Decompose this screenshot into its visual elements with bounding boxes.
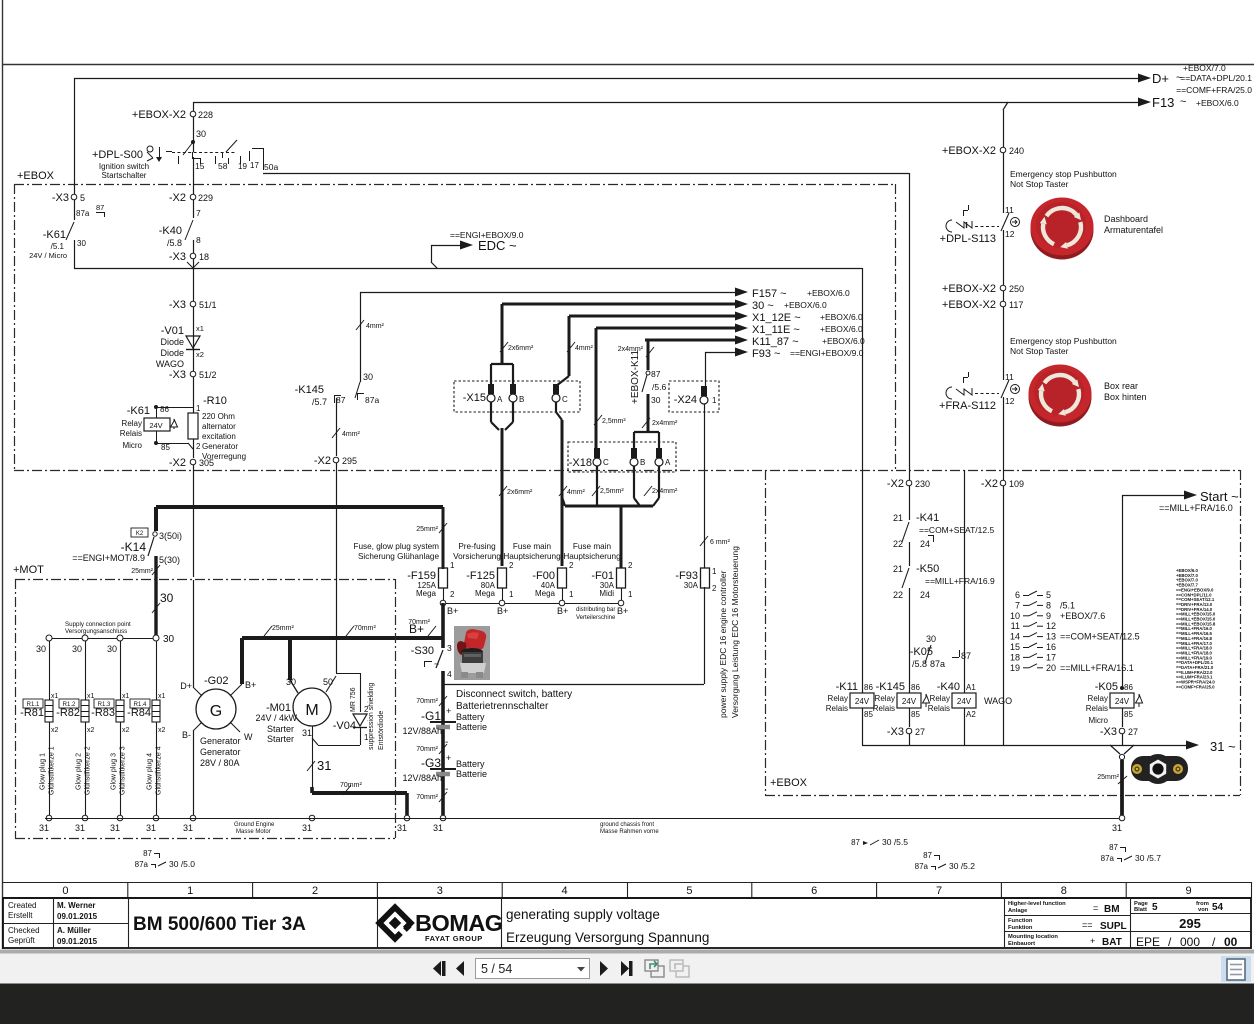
wire B+ main [441, 603, 445, 648]
svg-text:295: 295 [342, 456, 357, 466]
wire F159 feed [442, 507, 445, 569]
svg-text:30: 30 [286, 677, 296, 687]
connector box -X15 [454, 381, 580, 412]
svg-text:Masse Rahmen vorne: Masse Rahmen vorne [600, 829, 659, 835]
svg-text:+: + [1090, 936, 1095, 946]
svg-text:=: = [1093, 903, 1098, 913]
svg-text:0: 0 [62, 885, 68, 897]
svg-text:~: ~ [1180, 96, 1186, 108]
svg-text:Hauptsicherung: Hauptsicherung [563, 552, 621, 561]
svg-text:Ground Engine: Ground Engine [234, 822, 275, 828]
svg-text:18: 18 [199, 252, 209, 262]
svg-text:C: C [562, 395, 568, 404]
svg-text:87a: 87a [1101, 854, 1115, 863]
wire K11 to bus [862, 708, 864, 745]
svg-text:EPE: EPE [1136, 935, 1160, 949]
svg-text:4: 4 [562, 885, 568, 897]
contact K14 [154, 507, 158, 531]
svg-text:1: 1 [509, 590, 514, 599]
svg-text:09.01.2015: 09.01.2015 [57, 937, 98, 946]
svg-text:Start ~: Start ~ [1200, 489, 1239, 504]
svg-text:30: 30 [107, 644, 117, 654]
fuse -F93 [701, 568, 710, 588]
svg-text:Batterie: Batterie [456, 769, 487, 779]
svg-text:31: 31 [397, 823, 407, 833]
svg-text:230: 230 [915, 479, 930, 489]
svg-text:-R84: -R84 [127, 707, 151, 719]
wire F93 [705, 352, 741, 354]
wire X1_12E drop [568, 316, 571, 376]
svg-text:-K14: -K14 [121, 540, 147, 554]
svg-text:13: 13 [1046, 632, 1056, 642]
svg-text:16: 16 [1046, 642, 1056, 652]
svg-text:31: 31 [317, 758, 331, 773]
svg-text:11: 11 [1005, 205, 1014, 215]
svg-text:Glühstiftkerze 1: Glühstiftkerze 1 [49, 746, 56, 795]
svg-text:30 /5.0: 30 /5.0 [169, 859, 195, 869]
svg-text:Fuse main: Fuse main [573, 542, 612, 551]
svg-text:+: + [446, 706, 451, 716]
svg-text:1: 1 [187, 885, 193, 897]
svg-text:==COM+SEAT/12.5: ==COM+SEAT/12.5 [919, 525, 994, 535]
svg-text:24V: 24V [957, 697, 972, 706]
svg-text:+EBOX/6.0: +EBOX/6.0 [1196, 98, 1239, 108]
svg-text:87: 87 [143, 849, 152, 858]
svg-text:25mm²: 25mm² [1097, 774, 1119, 781]
svg-text:31: 31 [39, 823, 49, 833]
svg-text:Relay: Relay [875, 694, 895, 703]
svg-text:==MILL+FRA/16.1: ==MILL+FRA/16.1 [1060, 663, 1134, 673]
svg-text:-K50: -K50 [916, 563, 939, 575]
wire 15 down to X2:229 [193, 157, 195, 194]
svg-text:220 Ohm: 220 Ohm [202, 412, 235, 421]
svg-text:3: 3 [437, 885, 443, 897]
svg-text:-X2: -X2 [169, 192, 186, 204]
svg-text:-X18: -X18 [569, 457, 592, 469]
svg-text:-X3: -X3 [52, 192, 69, 204]
fuse -F125 [498, 568, 507, 588]
svg-text:50a: 50a [264, 162, 278, 172]
svg-text:Relais: Relais [1086, 704, 1108, 713]
svg-text:Relais: Relais [826, 704, 848, 713]
svg-text:31: 31 [146, 823, 156, 833]
svg-text:Micro: Micro [122, 441, 142, 450]
svg-text:4mm²: 4mm² [342, 431, 361, 438]
svg-text:+FRA-S112: +FRA-S112 [939, 400, 996, 412]
svg-text:==MILL+FRA/16.9: ==MILL+FRA/16.9 [925, 576, 995, 586]
svg-text:/5.6: /5.6 [652, 382, 666, 392]
svg-text:2: 2 [450, 590, 455, 599]
svg-text:-V01: -V01 [161, 325, 184, 337]
svg-text:M: M [305, 702, 318, 719]
svg-text:BM 500/600 Tier 3A: BM 500/600 Tier 3A [133, 914, 306, 935]
svg-text:7: 7 [1015, 600, 1020, 610]
wire 30 drop through X15 [501, 304, 504, 364]
svg-text:15: 15 [195, 161, 205, 171]
svg-text:Relay: Relay [1088, 694, 1108, 703]
svg-text:Not Stop Taster: Not Stop Taster [1010, 179, 1069, 189]
svg-text:30: 30 [77, 239, 86, 248]
viewer toolbar [0, 954, 1254, 984]
svg-text:D+: D+ [1152, 71, 1169, 86]
svg-text:B-: B- [182, 730, 191, 740]
svg-text:von: von [1198, 907, 1209, 913]
svg-text:x1: x1 [158, 693, 166, 700]
svg-text:19: 19 [238, 162, 247, 171]
svg-text:x2: x2 [87, 727, 95, 734]
svg-text:4mm²: 4mm² [567, 489, 586, 496]
svg-text:87a: 87a [930, 659, 945, 669]
svg-text:87: 87 [336, 395, 346, 405]
svg-text:-K05: -K05 [1095, 681, 1118, 693]
svg-text:21: 21 [893, 564, 903, 574]
svg-text:Relais: Relais [120, 429, 142, 438]
svg-text:C: C [603, 458, 609, 467]
svg-text:85: 85 [911, 710, 920, 719]
svg-text:BAT: BAT [1102, 937, 1122, 948]
bottom bus 31 [862, 745, 1192, 747]
svg-text:Starter: Starter [267, 724, 294, 734]
svg-text:2: 2 [628, 561, 633, 570]
svg-text:87a: 87a [365, 395, 379, 405]
svg-text:87: 87 [651, 369, 661, 379]
svg-text:-K40: -K40 [937, 681, 960, 693]
svg-text:FAYAT GROUP: FAYAT GROUP [425, 934, 483, 943]
svg-text:87: 87 [851, 838, 860, 847]
svg-text:Hauptsicherung: Hauptsicherung [503, 552, 561, 561]
svg-text:5: 5 [686, 885, 692, 897]
svg-text:+EBOX-X2: +EBOX-X2 [132, 109, 186, 121]
svg-text:Ignition switch: Ignition switch [99, 162, 149, 171]
svg-text:31: 31 [302, 823, 312, 833]
svg-text:30A: 30A [684, 581, 699, 590]
svg-text:Mounting location: Mounting location [1008, 934, 1058, 940]
svg-text:x2: x2 [158, 727, 166, 734]
svg-text:Checked: Checked [8, 926, 40, 935]
svg-text:D+: D+ [180, 681, 192, 691]
svg-text:Battery: Battery [456, 712, 485, 722]
wire X1_12E [569, 315, 741, 318]
svg-text:Generator: Generator [200, 747, 241, 757]
svg-text:B+: B+ [557, 606, 568, 616]
svg-text:Armaturentafel: Armaturentafel [1104, 225, 1163, 235]
svg-text:Blatt: Blatt [1134, 907, 1147, 913]
svg-text:54: 54 [1212, 902, 1224, 913]
svg-text:4mm²: 4mm² [366, 323, 385, 330]
svg-text:Relais: Relais [873, 704, 895, 713]
svg-text:A: A [665, 458, 671, 467]
svg-text:Higher-level function: Higher-level function [1008, 901, 1066, 907]
svg-text:27: 27 [1128, 727, 1138, 737]
emergency stop button 1 (dashboard) [1031, 198, 1094, 260]
svg-text:MR 756: MR 756 [350, 687, 357, 712]
generator G02 [193, 580, 195, 687]
wire F93 return to battery line [704, 587, 706, 684]
svg-text:1: 1 [450, 561, 455, 570]
svg-text:Glow plug 4: Glow plug 4 [147, 753, 154, 790]
svg-text:x2: x2 [122, 727, 130, 734]
glow plug R84 [156, 641, 158, 700]
svg-text:Geprüft: Geprüft [8, 936, 35, 945]
svg-text:31: 31 [183, 823, 193, 833]
svg-text:240: 240 [1009, 146, 1024, 156]
switch pole diagonals [183, 142, 193, 155]
svg-text:Dashboard: Dashboard [1104, 214, 1148, 224]
svg-text:-R83: -R83 [91, 707, 115, 719]
svg-text:-X3: -X3 [1100, 726, 1117, 738]
svg-text:30 ~: 30 ~ [752, 300, 774, 312]
wire X1_11E [596, 327, 741, 330]
svg-text:Disconnect switch, battery: Disconnect switch, battery [456, 689, 572, 700]
svg-text:Micro: Micro [1088, 716, 1108, 725]
B+ distribution rail [443, 603, 621, 605]
svg-text:2x6mm²: 2x6mm² [508, 345, 534, 352]
svg-text:12V/88Ah: 12V/88Ah [402, 726, 442, 736]
svg-text:+EBOX/6.0: +EBOX/6.0 [820, 312, 863, 322]
svg-text:87: 87 [96, 203, 104, 212]
svg-text:30: 30 [651, 395, 661, 405]
svg-text:Midi: Midi [599, 589, 614, 598]
svg-text:Starter: Starter [267, 734, 294, 744]
wire F93 drop [705, 352, 707, 386]
svg-text:Relay: Relay [930, 694, 950, 703]
svg-text:B+: B+ [497, 606, 508, 616]
svg-text:Mega: Mega [475, 589, 496, 598]
svg-text:-X15: -X15 [463, 392, 486, 404]
svg-text:+EBOX-X2: +EBOX-X2 [942, 145, 996, 157]
svg-text:70mm²: 70mm² [416, 698, 438, 705]
svg-text:-X3: -X3 [169, 369, 186, 381]
svg-text:+EBOX/7.0: +EBOX/7.0 [1183, 63, 1226, 73]
svg-text:2: 2 [569, 561, 574, 570]
svg-text:6: 6 [811, 885, 817, 897]
ground rail 31 [45, 818, 1122, 820]
svg-text:Diode: Diode [160, 337, 184, 347]
svg-text:87: 87 [1109, 843, 1118, 852]
svg-text:31: 31 [75, 823, 85, 833]
svg-text:-K61: -K61 [43, 229, 66, 241]
svg-text:/5.1: /5.1 [51, 242, 65, 251]
svg-text:24V: 24V [1115, 697, 1130, 706]
svg-text:70mm²: 70mm² [416, 746, 438, 753]
thick collector y=506 to F01 [565, 505, 653, 508]
svg-text:A: A [497, 395, 503, 404]
svg-text:distributing bar: distributing bar [576, 607, 615, 613]
svg-text:-K61: -K61 [127, 405, 150, 417]
contact K40 [193, 200, 195, 218]
viewer gray strip [0, 950, 1254, 954]
svg-text:22: 22 [893, 539, 903, 549]
svg-text:117: 117 [1009, 300, 1023, 310]
svg-text:11: 11 [1011, 621, 1020, 631]
svg-text:+EBOX/6.0: +EBOX/6.0 [822, 336, 865, 346]
svg-text:WAGO: WAGO [156, 359, 184, 369]
svg-text:==COM+SEAT/12.5: ==COM+SEAT/12.5 [1060, 632, 1140, 642]
svg-text:17: 17 [1046, 652, 1056, 662]
fuse -F01 [617, 568, 626, 588]
svg-text:-K40: -K40 [159, 225, 182, 237]
svg-text:-K145: -K145 [295, 384, 324, 396]
svg-text:-X2: -X2 [314, 455, 331, 467]
svg-text:1: 1 [712, 567, 717, 576]
svg-text:229: 229 [198, 193, 213, 203]
svg-text:Glühstiftkerze 4: Glühstiftkerze 4 [156, 746, 163, 795]
svg-text:12: 12 [1005, 229, 1015, 239]
svg-text:-X3: -X3 [169, 299, 186, 311]
svg-text:70mm²: 70mm² [416, 794, 438, 801]
svg-text:10: 10 [1010, 611, 1020, 621]
toolbar prev button [456, 961, 464, 976]
wire X1_11E drop through X18 [595, 328, 598, 450]
svg-text:2: 2 [712, 584, 717, 593]
wire drop to K61 x=74 [74, 78, 76, 194]
svg-text:87a: 87a [915, 862, 929, 871]
svg-text:suppression shielding: suppression shielding [368, 683, 375, 750]
coil diode K61 [171, 419, 178, 429]
svg-text:Box rear: Box rear [1104, 381, 1138, 391]
svg-text:X1_11E ~: X1_11E ~ [752, 324, 800, 336]
svg-text:24V / 4kW: 24V / 4kW [255, 713, 297, 723]
svg-text:2,5mm²: 2,5mm² [602, 418, 626, 425]
svg-text:31: 31 [302, 728, 312, 738]
wire drop from F13 to X2:228 [193, 102, 195, 111]
svg-text:24V: 24V [855, 697, 870, 706]
svg-text:24V: 24V [902, 697, 917, 706]
svg-text:5 / 54: 5 / 54 [481, 962, 512, 976]
svg-text:87: 87 [923, 851, 932, 860]
toolbar first-page button [433, 961, 441, 976]
toolbar icon pages-gray [670, 960, 689, 977]
svg-text:109: 109 [1009, 479, 1024, 489]
svg-text:Glow plug 1: Glow plug 1 [40, 753, 47, 790]
svg-text:70mm²: 70mm² [340, 782, 362, 789]
svg-text:58: 58 [218, 161, 228, 171]
BOMAG logo [377, 898, 379, 948]
wire G02 B+ to bus [240, 638, 244, 684]
svg-text:Vorsicherung: Vorsicherung [453, 552, 501, 561]
svg-text:==DATA+DPL/20.1: ==DATA+DPL/20.1 [1180, 73, 1252, 83]
svg-text:Masse Motor: Masse Motor [236, 829, 271, 835]
svg-text:-X3: -X3 [887, 726, 904, 738]
svg-text:30: 30 [36, 644, 46, 654]
toolbar last-page button [621, 961, 629, 976]
svg-text:Created: Created [8, 901, 36, 910]
svg-text:14: 14 [1010, 632, 1020, 642]
svg-text:+EBOX-K11: +EBOX-K11 [630, 350, 641, 404]
svg-text:5: 5 [1152, 902, 1158, 913]
svg-text:Pre-fusing: Pre-fusing [458, 542, 496, 551]
svg-text:12: 12 [1005, 396, 1015, 406]
created/checked cells [3, 923, 128, 925]
svg-text:11: 11 [1005, 372, 1014, 382]
svg-text:-V04: -V04 [333, 720, 356, 732]
svg-text:00: 00 [1224, 935, 1238, 949]
svg-text:/5.8: /5.8 [167, 238, 182, 248]
wire 50 up [326, 676, 336, 692]
svg-text:31: 31 [1112, 823, 1122, 833]
svg-text:alternator: alternator [202, 422, 236, 431]
svg-text:Mega: Mega [535, 589, 556, 598]
svg-text:-G1: -G1 [421, 709, 441, 723]
glow plug R81 [49, 641, 51, 700]
svg-text:+DPL-S00: +DPL-S00 [92, 149, 143, 161]
battery G3 [439, 744, 447, 754]
wire K145 to X3:27 [909, 708, 911, 727]
wire F157 drop x=360 [360, 292, 362, 382]
svg-text:7: 7 [936, 885, 942, 897]
svg-text:+EBOX/7.6: +EBOX/7.6 [1060, 611, 1105, 621]
svg-text:Supply connection point: Supply connection point [65, 621, 131, 628]
svg-text:+: + [446, 753, 451, 763]
svg-text:-R82: -R82 [56, 707, 80, 719]
svg-text:5(30): 5(30) [159, 555, 180, 565]
svg-text:==MILL+FRA/16.0: ==MILL+FRA/16.0 [1159, 503, 1233, 513]
wire K145 down to X2:295 [336, 398, 338, 456]
svg-text:295: 295 [1179, 916, 1201, 931]
contact K145 [355, 382, 360, 398]
supply rail 30 [49, 638, 156, 640]
svg-text:Anlage: Anlage [1008, 908, 1028, 914]
svg-text:25mm²: 25mm² [272, 625, 294, 632]
svg-text:86: 86 [864, 683, 873, 692]
svg-text:Glühstiftkerze 3: Glühstiftkerze 3 [120, 746, 127, 795]
svg-text:09.01.2015: 09.01.2015 [57, 912, 98, 921]
svg-text:/5.1: /5.1 [1060, 600, 1075, 610]
svg-text:B: B [519, 395, 524, 404]
svg-text:Relay: Relay [828, 694, 848, 703]
svg-text:25mm²: 25mm² [416, 526, 438, 533]
diode V04 [336, 673, 360, 675]
location box +EBOX right [765, 470, 767, 795]
svg-text:-X2: -X2 [981, 478, 998, 490]
svg-text:Generator: Generator [200, 736, 241, 746]
svg-text:18: 18 [1010, 652, 1020, 662]
long wire y=268 [74, 268, 862, 270]
svg-text:Emergency stop Pushbutton: Emergency stop Pushbutton [1010, 169, 1117, 179]
svg-text:20: 20 [1046, 663, 1056, 673]
page frame left border [2, 0, 4, 949]
diode V01 [193, 307, 195, 372]
svg-text:Fuse main: Fuse main [513, 542, 552, 551]
svg-text:87a: 87a [135, 860, 149, 869]
svg-text:SUPL: SUPL [1100, 921, 1127, 932]
svg-text:==ENGI+EBOX/9.0: ==ENGI+EBOX/9.0 [790, 348, 864, 358]
svg-text:-R81: -R81 [20, 707, 44, 719]
svg-text:EDC ~: EDC ~ [478, 238, 517, 253]
svg-text:+EBOX: +EBOX [770, 777, 808, 789]
svg-text:12: 12 [1046, 621, 1056, 631]
svg-text:30: 30 [160, 591, 174, 605]
svg-text:228: 228 [198, 110, 213, 120]
svg-text:8: 8 [196, 235, 201, 245]
svg-text:2: 2 [312, 885, 318, 897]
svg-text:Relais: Relais [928, 704, 950, 713]
svg-text:+EBOX/6.0: +EBOX/6.0 [820, 324, 863, 334]
svg-text:-S30: -S30 [411, 645, 434, 657]
svg-text:Box hinten: Box hinten [1104, 392, 1147, 402]
emergency stop button 2 (box rear) [1029, 365, 1092, 427]
toolbar next button [600, 961, 608, 976]
svg-text:6 mm²: 6 mm² [710, 539, 731, 546]
wire 30 [193, 117, 195, 152]
wire K11_87 drop + contact EBOX-K11 [647, 340, 650, 370]
svg-text:30: 30 [196, 129, 206, 139]
svg-text:+MOT: +MOT [13, 564, 44, 576]
wire estop column [1003, 110, 1005, 147]
svg-text:x1: x1 [122, 693, 130, 700]
svg-text:6: 6 [1015, 590, 1020, 600]
svg-text:Erstellt: Erstellt [8, 911, 33, 920]
